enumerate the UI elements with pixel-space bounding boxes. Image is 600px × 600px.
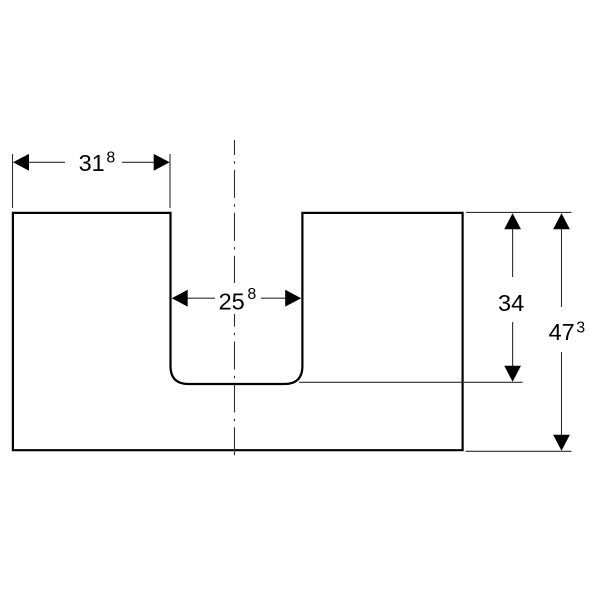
dim 47-3 : arrow down (553, 435, 570, 451)
svg-text:31: 31 (79, 150, 105, 176)
dim 34 : shaft lower (512, 322, 514, 367)
dim 31-8 : extension line left (12, 154, 14, 208)
bottom-right extension line (466, 450, 572, 452)
white mask behind 25-8 text (214, 283, 260, 314)
dim 25-8 : arrow right (285, 290, 301, 307)
dim 47-3 : shaft upper (561, 228, 563, 307)
dim 31-8 : shaft right (122, 161, 156, 163)
dim 25-8 : shaft right (261, 297, 287, 299)
dim 31-8 : shaft left (27, 161, 65, 163)
svg-text:3: 3 (576, 320, 585, 337)
top-right extension line (466, 211, 572, 213)
dim 47-3 : arrow up (553, 213, 570, 229)
dim 34 : arrow down (504, 366, 521, 382)
dim 31-8 : arrow left (13, 154, 29, 171)
dim 34 : shaft upper (512, 228, 514, 277)
middle extension line (cutout depth) (299, 381, 523, 383)
dim 31-8 : extension line right (169, 154, 171, 208)
dim 25-8 : arrow left (172, 290, 188, 307)
dim 31-8 : arrow right (154, 154, 170, 171)
svg-text:8: 8 (106, 149, 115, 166)
svg-text:8: 8 (247, 286, 256, 303)
svg-text:47: 47 (549, 319, 575, 345)
centerline (dash-dot) of cutout (234, 140, 236, 459)
svg-text:34: 34 (498, 290, 524, 316)
svg-text:25: 25 (219, 289, 245, 315)
panel outline with U-shaped cutout (13, 213, 463, 450)
dim 34 : arrow up (504, 213, 521, 229)
dim 25-8 : shaft left (186, 297, 215, 299)
dim 47-3 : shaft lower (561, 352, 563, 436)
